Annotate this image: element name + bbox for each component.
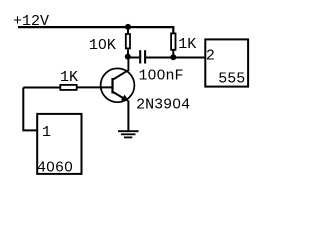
svg-text:+12V: +12V xyxy=(13,13,49,30)
svg-text:555: 555 xyxy=(218,71,245,88)
svg-text:1: 1 xyxy=(42,124,51,141)
svg-text:1K: 1K xyxy=(60,69,78,86)
svg-text:2N3904: 2N3904 xyxy=(136,96,190,113)
svg-text:2: 2 xyxy=(206,47,215,64)
svg-text:1K: 1K xyxy=(178,36,196,53)
